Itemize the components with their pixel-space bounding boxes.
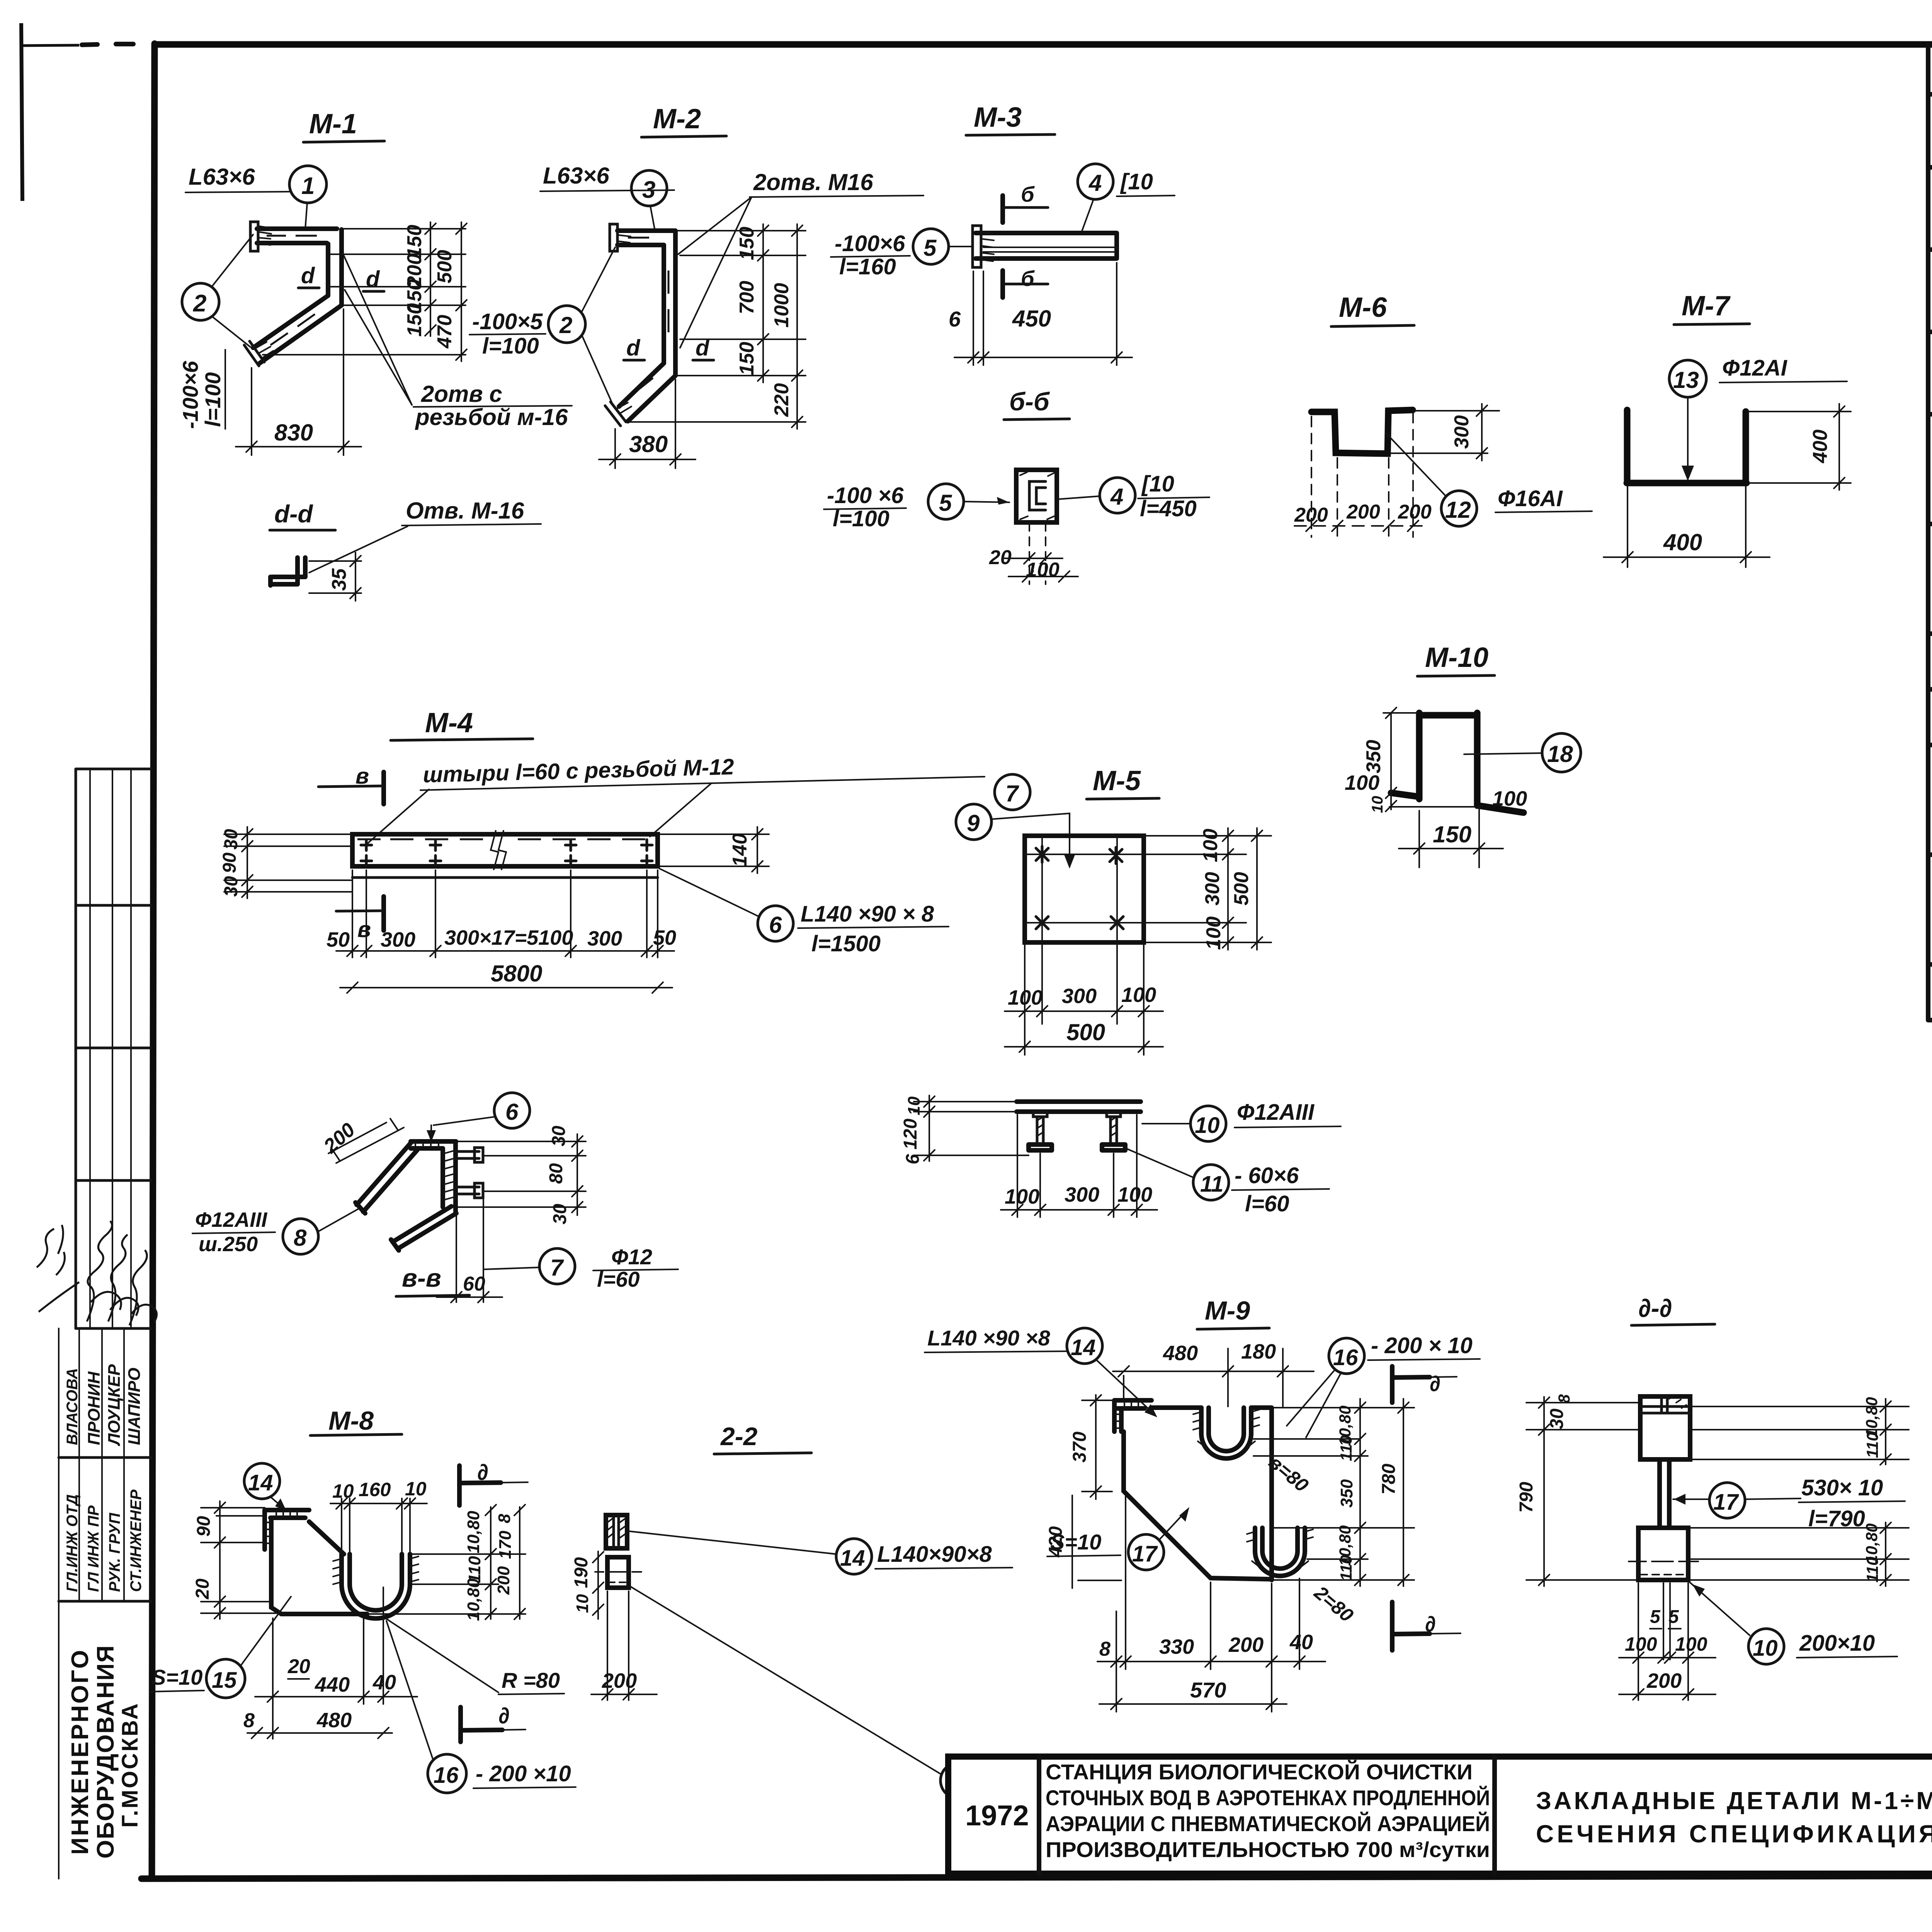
detail M-8 section mark d bottom (461, 1703, 526, 1742)
section d-d callout pos.10 (1689, 1582, 1897, 1664)
svg-text:100: 100 (1117, 1183, 1152, 1206)
detail M-4 stud cross marks (361, 840, 652, 866)
svg-text:100: 100 (1345, 771, 1379, 794)
svg-text:Ф12АIII: Ф12АIII (1237, 1100, 1315, 1125)
svg-text:110: 110 (1863, 1557, 1881, 1583)
detail M-8 plate body (271, 1522, 367, 1614)
section d-d angle (270, 558, 305, 585)
svg-text:13: 13 (1673, 367, 1699, 393)
svg-text:120: 120 (900, 1119, 921, 1150)
svg-text:М-7: М-7 (1682, 291, 1731, 321)
detail M-2 callout L63x6 pos.3 (540, 163, 674, 231)
svg-text:200: 200 (1346, 501, 1380, 523)
svg-text:∂-∂: ∂-∂ (1638, 1294, 1672, 1322)
svg-text:10,80: 10,80 (464, 1510, 483, 1553)
section d-d left dimension chain 30-790 (1516, 1394, 1638, 1586)
svg-text:110: 110 (1863, 1432, 1881, 1458)
svg-text:200: 200 (602, 1669, 637, 1692)
svg-text:ПРОНИН: ПРОНИН (85, 1371, 104, 1445)
svg-text:[10: [10 (1120, 169, 1153, 194)
section b-b callout pos.4 (1058, 471, 1209, 521)
section v-v callout pos.7 (485, 1245, 678, 1291)
section d-d hole note (309, 498, 541, 573)
svg-text:5: 5 (1650, 1607, 1661, 1627)
detail M-8 bottom dimension 8-480 (243, 1709, 392, 1738)
svg-text:370: 370 (1070, 1432, 1090, 1463)
svg-text:2: 2 (559, 312, 572, 338)
scan artifact: dashed segment left of top corner (82, 44, 133, 45)
sheet frame bottom border (141, 1875, 1932, 1879)
svg-text:500: 500 (1230, 872, 1253, 906)
svg-text:10: 10 (405, 1478, 427, 1500)
section b-b label (1004, 387, 1070, 420)
left stamp column grid (59, 769, 151, 1879)
svg-text:Г.МОСКВА: Г.МОСКВА (117, 1702, 143, 1828)
svg-text:ПРОИЗВОДИТЕЛЬНОСТЬЮ 700 м³/сут: ПРОИЗВОДИТЕЛЬНОСТЬЮ 700 м³/сутки (1046, 1837, 1490, 1862)
svg-text:3: 3 (642, 177, 655, 203)
section v-v callout pos.6 (427, 1093, 530, 1142)
section g-g 200 dimension (591, 1591, 657, 1700)
detail M-8 callout pos.15 (150, 1597, 291, 1698)
M-5 side view bottom dimensions (1001, 1115, 1157, 1217)
svg-text:200: 200 (1646, 1669, 1682, 1692)
title block station name (1046, 1760, 1490, 1862)
section d-d callout pos.17 (1673, 1475, 1905, 1531)
detail M-8 R=80 note (385, 1618, 564, 1694)
svg-text:Отв. М-16: Отв. М-16 (406, 498, 524, 524)
svg-text:6: 6 (903, 1154, 923, 1164)
detail M-5 label (1087, 765, 1159, 799)
left stamp rotated names row (64, 1364, 144, 1446)
svg-text:6: 6 (949, 307, 961, 331)
svg-text:160: 160 (359, 1479, 391, 1500)
title block frame (948, 1757, 1932, 1874)
svg-text:9: 9 (967, 810, 980, 836)
section d-d middle bar (1660, 1459, 1669, 1528)
svg-text:Ф12АI: Ф12АI (1722, 355, 1788, 381)
detail M-2 thread holes note (678, 169, 923, 348)
svg-text:[10: [10 (1141, 471, 1174, 497)
svg-text:5: 5 (1668, 1607, 1679, 1627)
section v-v 200 diagonal dimension (319, 1119, 404, 1163)
svg-text:АЭРАЦИИ С ПНЕВМАТИЧЕСКОЙ АЭРАЦ: АЭРАЦИИ С ПНЕВМАТИЧЕСКОЙ АЭРАЦИЕЙ (1046, 1811, 1490, 1836)
detail M-1 callout L63x6 pos.1 (185, 164, 327, 229)
svg-text:2отв с: 2отв с (421, 381, 502, 407)
detail M-1 right dimension chain (263, 222, 467, 361)
section b-b callout pos.5 (824, 483, 1009, 531)
svg-text:500: 500 (434, 250, 456, 284)
svg-text:СТ.ИНЖЕНЕР: СТ.ИНЖЕНЕР (128, 1490, 145, 1592)
svg-text:S=10: S=10 (151, 1665, 202, 1689)
detail M-1 end plate top (250, 222, 271, 251)
detail M-4 left dimension chain 30-90-30 (219, 827, 352, 898)
svg-text:700: 700 (736, 281, 758, 315)
svg-text:ГЛ ИНЖ ПР: ГЛ ИНЖ ПР (85, 1505, 102, 1592)
svg-text:780: 780 (1379, 1464, 1399, 1495)
svg-text:-100×5: -100×5 (472, 309, 543, 334)
section d-d bottom box (1629, 1528, 1698, 1580)
detail M-2 angle body (617, 231, 675, 421)
detail M-9 label (1197, 1296, 1269, 1329)
svg-text:-100×6: -100×6 (835, 231, 905, 256)
svg-text:530× 10: 530× 10 (1801, 1475, 1883, 1500)
section g-g left dimension chain (571, 1551, 604, 1619)
section v-v angle with studs (355, 1141, 456, 1250)
svg-text:150: 150 (736, 342, 758, 376)
detail M-1 end plate bottom (244, 341, 273, 366)
svg-text:-100 ×6: -100 ×6 (827, 483, 904, 508)
detail M-9 callout pos.16 top (1287, 1333, 1480, 1437)
detail M-8 right dimension chains (369, 1505, 526, 1621)
svg-text:500: 500 (1066, 1019, 1105, 1045)
svg-text:- 200 × 10: - 200 × 10 (1371, 1333, 1473, 1358)
svg-text:16: 16 (1333, 1345, 1358, 1370)
svg-text:30: 30 (550, 1204, 570, 1225)
detail M-2 end plate bottom (605, 402, 631, 426)
svg-text:100: 100 (1121, 983, 1156, 1007)
detail M-1 d-d section marks (298, 263, 384, 292)
svg-text:Ф12АIII: Ф12АIII (195, 1208, 267, 1231)
section d-d label (270, 500, 335, 530)
detail M-3 callout C10 pos.4 (1078, 164, 1175, 231)
svg-text:150: 150 (736, 227, 758, 260)
svg-text:10,80: 10,80 (464, 1578, 483, 1621)
svg-text:830: 830 (274, 420, 313, 446)
detail M-6 bottom dimensions 200x3 (1294, 413, 1432, 537)
svg-text:8: 8 (243, 1709, 255, 1732)
svg-text:17: 17 (1132, 1541, 1158, 1566)
svg-text:350: 350 (1362, 740, 1385, 774)
section v-v 60 dimension (437, 1200, 502, 1303)
svg-text:330: 330 (1159, 1635, 1194, 1658)
detail M-9 right dimension chains (1253, 1399, 1414, 1586)
svg-text:20: 20 (989, 546, 1012, 569)
svg-text:20: 20 (192, 1578, 213, 1600)
svg-text:М-2: М-2 (653, 104, 701, 134)
detail M-8 bottom dimensions 20-440-40 (255, 1587, 417, 1739)
svg-text:l=1500: l=1500 (811, 931, 881, 956)
svg-text:570: 570 (1190, 1678, 1226, 1702)
detail M-4 5800 dimension (340, 961, 672, 993)
svg-text:170: 170 (496, 1531, 515, 1559)
svg-text:110: 110 (1337, 1555, 1355, 1581)
svg-text:4: 4 (1088, 170, 1102, 196)
svg-text:М-1: М-1 (309, 109, 357, 139)
section g-g callout pos.16 (630, 1586, 1082, 1798)
svg-text:СТАНЦИЯ БИОЛОГИЧЕСКОЙ ОЧИСТКИ: СТАНЦИЯ БИОЛОГИЧЕСКОЙ ОЧИСТКИ (1046, 1760, 1473, 1784)
svg-text:2: 2 (193, 290, 206, 317)
svg-text:60: 60 (463, 1273, 485, 1295)
detail M-3 callout plate pos.5 (831, 229, 972, 279)
detail M-5 right dimension chains (1146, 828, 1271, 950)
svg-text:14: 14 (248, 1470, 273, 1495)
spec table group boundary lines (1928, 250, 1932, 964)
svg-text:R =80: R =80 (502, 1668, 560, 1692)
svg-text:40: 40 (372, 1671, 396, 1694)
detail M-3 label (966, 102, 1055, 135)
detail M-8 U hook (333, 1554, 418, 1619)
detail M-9 left dimension chain 370-420 (1046, 1395, 1121, 1588)
svg-text:10,80: 10,80 (1862, 1397, 1881, 1437)
svg-text:10: 10 (1369, 796, 1386, 813)
svg-text:- 200 ×10: - 200 ×10 (476, 1761, 571, 1786)
svg-text:15: 15 (212, 1668, 237, 1693)
svg-text:30: 30 (1547, 1408, 1567, 1429)
svg-text:L140 ×90 × 8: L140 ×90 × 8 (801, 901, 934, 927)
detail M-9 section mark d bottom (1392, 1602, 1461, 1650)
detail M-3 section mark b top (1003, 182, 1048, 223)
svg-text:2-2: 2-2 (720, 1422, 758, 1451)
sheet frame top border (155, 41, 1932, 48)
svg-text:l=100: l=100 (833, 506, 889, 531)
detail M-2 label (641, 104, 726, 137)
svg-text:10: 10 (573, 1594, 592, 1613)
svg-text:10: 10 (1753, 1636, 1778, 1661)
svg-text:150: 150 (403, 303, 426, 337)
detail M-10 150 dimension (1399, 810, 1503, 867)
svg-text:в-в: в-в (402, 1264, 441, 1292)
detail M-10 callout pos.18 (1464, 733, 1581, 772)
svg-text:б: б (1021, 182, 1035, 206)
svg-text:30: 30 (221, 876, 241, 897)
section v-v studs (456, 1148, 483, 1198)
detail M-1 thread holes note (344, 256, 572, 430)
detail M-6 label (1331, 292, 1414, 327)
detail M-7 U bar (1627, 410, 1747, 483)
svg-text:470: 470 (434, 315, 456, 349)
svg-text:l=60: l=60 (1245, 1191, 1289, 1216)
svg-text:М-4: М-4 (425, 707, 473, 738)
svg-text:50: 50 (653, 926, 676, 949)
detail M-2 end plate top (610, 224, 631, 251)
detail M-9 bottom dimension chain 8-330-200-40 (1097, 1495, 1325, 1712)
scan artifact: dark streak at far left top (21, 23, 79, 201)
svg-text:110: 110 (1337, 1435, 1355, 1461)
svg-text:М-10: М-10 (1425, 642, 1488, 673)
detail M-2 380 dimension (599, 379, 696, 468)
svg-text:100: 100 (1005, 1185, 1039, 1208)
svg-text:790: 790 (1516, 1482, 1537, 1513)
section v-v right dimension chain 30-80-30 (458, 1126, 586, 1225)
svg-text:450: 450 (1012, 306, 1051, 332)
svg-text:8: 8 (1099, 1638, 1111, 1660)
svg-text:90: 90 (219, 852, 240, 873)
detail M-4 bottom dimension chain (327, 870, 676, 957)
svg-text:ИНЖЕНЕРНОГО: ИНЖЕНЕРНОГО (67, 1648, 94, 1855)
svg-text:380: 380 (629, 431, 668, 457)
svg-text:300: 300 (1062, 985, 1097, 1008)
svg-text:440: 440 (315, 1673, 350, 1696)
detail M-7 callout pos.13 (1669, 355, 1847, 481)
svg-text:100: 100 (1675, 1633, 1708, 1655)
svg-text:5800: 5800 (491, 961, 542, 986)
svg-text:d-d: d-d (274, 500, 313, 528)
detail M-1 angle body (253, 229, 342, 363)
svg-text:100: 100 (1199, 829, 1222, 862)
svg-text:80: 80 (546, 1163, 566, 1184)
section b-b C profile (1016, 470, 1057, 522)
svg-text:l=450: l=450 (1140, 496, 1197, 521)
section g-g bottom box (595, 1557, 641, 1588)
svg-text:М-5: М-5 (1093, 765, 1141, 796)
detail M-9 top angle (1114, 1400, 1151, 1432)
svg-text:РУК. ГРУП: РУК. ГРУП (106, 1512, 123, 1592)
svg-text:l=160: l=160 (839, 254, 896, 279)
svg-text:100: 100 (1492, 787, 1527, 810)
section g-g top box (606, 1515, 627, 1548)
detail M-9 R=80 notes (1265, 1451, 1357, 1626)
detail M-6 bent bar profile (1311, 410, 1413, 454)
svg-text:30: 30 (549, 1126, 569, 1146)
svg-text:2отв. М16: 2отв. М16 (753, 169, 873, 195)
section d-d 35 dimension (309, 553, 361, 601)
svg-text:L140 ×90 ×8: L140 ×90 ×8 (927, 1326, 1050, 1350)
svg-text:ОБОРУДОВАНИЯ: ОБОРУДОВАНИЯ (92, 1645, 119, 1859)
svg-text:L63×6: L63×6 (189, 164, 255, 190)
svg-text:∂: ∂ (1430, 1371, 1440, 1396)
detail M-5 anchor marks (1036, 846, 1123, 929)
svg-text:17: 17 (1713, 1490, 1739, 1515)
detail M-8 section mark d top (459, 1460, 528, 1505)
svg-text:16: 16 (434, 1763, 459, 1788)
svg-text:ш.250: ш.250 (199, 1233, 258, 1256)
svg-text:480: 480 (1163, 1342, 1198, 1365)
svg-text:ШАПИРО: ШАПИРО (125, 1367, 144, 1445)
svg-text:90: 90 (194, 1516, 214, 1537)
detail M-4 studs note (368, 754, 1030, 843)
detail M-9 section mark d top (1392, 1366, 1457, 1403)
svg-text:8: 8 (495, 1514, 514, 1523)
svg-text:5: 5 (923, 235, 937, 261)
svg-text:300: 300 (381, 928, 415, 951)
svg-text:5: 5 (939, 490, 952, 516)
svg-text:100: 100 (1202, 917, 1225, 950)
detail M-9 lower U hook (1247, 1528, 1313, 1576)
svg-text:10: 10 (332, 1480, 354, 1502)
detail M-2 d marks (624, 335, 714, 361)
svg-text:СТОЧНЫХ ВОД В АЭРОТЕНКАХ ПРОДЛ: СТОЧНЫХ ВОД В АЭРОТЕНКАХ ПРОДЛЕННОЙ (1046, 1786, 1490, 1810)
svg-text:L140×90×8: L140×90×8 (877, 1542, 992, 1567)
detail M-8 label (310, 1406, 402, 1435)
M-5 side view left dimension chain (900, 1095, 1029, 1164)
svg-text:200×10: 200×10 (1799, 1631, 1875, 1656)
svg-text:100: 100 (1026, 559, 1060, 581)
svg-text:М-6: М-6 (1339, 292, 1387, 323)
spec table outer frame (1928, 44, 1932, 1020)
svg-text:100: 100 (1008, 986, 1043, 1009)
svg-text:200: 200 (1398, 501, 1432, 523)
svg-text:7: 7 (1005, 781, 1019, 806)
svg-text:б-б: б-б (1009, 387, 1050, 416)
svg-text:11: 11 (1200, 1172, 1223, 1197)
detail M-9 callout pos.17 (1047, 1507, 1189, 1570)
detail M-7 400 dimension right (1748, 404, 1851, 490)
detail M-8 left dimension chain 90-20 (192, 1501, 276, 1619)
detail M-10 label (1417, 642, 1495, 676)
svg-text:Ф12: Ф12 (611, 1245, 652, 1269)
svg-text:480: 480 (316, 1709, 352, 1732)
detail M-1 label (303, 109, 384, 142)
detail M-3 bottom dimension 450 (949, 263, 1132, 365)
svg-text:М-3: М-3 (974, 102, 1022, 133)
detail M-1 830 dimension (236, 309, 361, 455)
detail M-9 top dimensions 480-180 (1113, 1340, 1314, 1406)
svg-text:d: d (366, 267, 380, 292)
svg-text:М-9: М-9 (1205, 1296, 1250, 1325)
left stamp signatures (scribbles) (37, 1221, 157, 1325)
svg-text:L63×6: L63×6 (543, 163, 609, 189)
svg-text:150: 150 (403, 225, 426, 259)
svg-text:30: 30 (221, 829, 241, 850)
svg-text:8: 8 (1555, 1394, 1573, 1403)
svg-text:200: 200 (1228, 1633, 1264, 1656)
svg-text:190: 190 (571, 1557, 592, 1588)
svg-text:220: 220 (770, 383, 793, 417)
svg-text:200: 200 (494, 1566, 513, 1595)
section v-v callout pos.8 (192, 1208, 360, 1256)
svg-text:l=100: l=100 (482, 333, 539, 359)
svg-text:350: 350 (1337, 1479, 1356, 1508)
svg-text:200: 200 (1294, 504, 1328, 526)
detail M-7 label (1674, 291, 1750, 325)
svg-text:ВЛАСОВА: ВЛАСОВА (64, 1368, 81, 1445)
detail M-4 140 dimension right (660, 827, 769, 873)
svg-text:- 60×6: - 60×6 (1235, 1163, 1299, 1188)
detail M-4 label (391, 707, 533, 740)
detail M-4 section mark v top (318, 764, 384, 804)
svg-text:400: 400 (1809, 430, 1832, 464)
svg-text:300: 300 (1201, 872, 1224, 906)
svg-text:l=100: l=100 (201, 372, 225, 427)
svg-text:СЕЧЕНИЯ СПЕЦИФИКАЦИЯ: СЕЧЕНИЯ СПЕЦИФИКАЦИЯ (1536, 1820, 1932, 1848)
svg-text:18: 18 (1547, 741, 1573, 767)
detail M-6 callout pos.12 (1386, 434, 1592, 526)
svg-text:140: 140 (729, 833, 751, 867)
detail M-9 upper U hook (1193, 1408, 1259, 1459)
detail M-5 callout pos.9 (956, 804, 1075, 869)
detail M-4 section mark v bottom (336, 896, 384, 942)
detail M-3 channel bar (976, 233, 1117, 259)
svg-text:б: б (1021, 266, 1035, 291)
detail M-1 callout plate pos.2 (178, 235, 253, 429)
svg-text:1: 1 (301, 173, 315, 199)
svg-text:20: 20 (287, 1655, 310, 1678)
detail M-9 570 dimension (1099, 1678, 1287, 1709)
svg-text:14: 14 (840, 1546, 865, 1571)
svg-text:12: 12 (1445, 497, 1471, 523)
sheet frame left border (152, 44, 155, 1878)
svg-text:420: 420 (1046, 1526, 1066, 1558)
M-5 side view callout pos.11 (1126, 1148, 1329, 1216)
svg-text:6: 6 (769, 912, 782, 938)
section d-d top box (1640, 1396, 1690, 1459)
detail M-3 end plate (973, 226, 994, 267)
svg-text:7: 7 (550, 1255, 564, 1281)
section v-v label (396, 1264, 469, 1296)
svg-text:d: d (301, 263, 315, 288)
svg-text:Ф16АI: Ф16АI (1498, 486, 1563, 511)
title block sheet name (1536, 1787, 1932, 1848)
svg-text:в: в (357, 917, 371, 942)
svg-text:180: 180 (1241, 1340, 1276, 1363)
svg-text:8: 8 (294, 1225, 307, 1251)
svg-text:∂: ∂ (498, 1703, 510, 1728)
detail M-10 bar shape (1389, 713, 1524, 813)
detail M-9 callout pos.14 (925, 1326, 1157, 1417)
section b-b bottom dimensions (989, 522, 1078, 584)
svg-text:1972: 1972 (965, 1799, 1029, 1832)
svg-text:ЗАКЛАДНЫЕ ДЕТАЛИ М-1÷М-10.: ЗАКЛАДНЫЕ ДЕТАЛИ М-1÷М-10. (1536, 1787, 1932, 1815)
